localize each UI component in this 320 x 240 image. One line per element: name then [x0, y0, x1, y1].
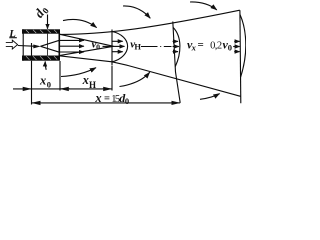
arrow right at transition — [102, 88, 112, 90]
core boundary lower converging — [59, 46, 113, 55]
svg-text:x: x — [191, 43, 197, 53]
profile arrow 1 — [112, 40, 122, 42]
axis dash-dot after vH — [141, 46, 172, 48]
underline of L — [9, 37, 16, 39]
label d0 — [31, 2, 51, 21]
fan line upper from arrow tip — [41, 40, 60, 46]
right arrow of x=15d0 — [171, 102, 180, 104]
svg-text:0,2: 0,2 — [210, 40, 222, 51]
jet upper boundary — [59, 10, 240, 34]
entrainment arrow top 3 — [190, 2, 217, 10]
pole extension line — [31, 43, 33, 105]
x=15d0 span — [41, 102, 171, 104]
entrainment arrow bottom 3 — [200, 94, 220, 100]
d0 top arrow — [47, 15, 49, 29]
nozzle left edge — [22, 29, 24, 60]
dimension line x0 / xH at y=89 — [13, 88, 32, 90]
entrainment arrow top 1 — [63, 19, 97, 27]
far velocity profile — [240, 15, 246, 78]
transition section line — [111, 30, 113, 66]
svg-text:0: 0 — [96, 42, 100, 51]
far section line — [239, 10, 242, 103]
nozzle exit edge — [58, 34, 60, 56]
velocity profile at x=15d0 — [173, 28, 180, 67]
profile arrow 3 — [112, 51, 122, 53]
far profile arrow 1 — [234, 40, 239, 42]
far profile arrow 2 — [233, 46, 239, 48]
profile2 arrow 2 — [173, 46, 179, 48]
axis arrowhead — [33, 45, 41, 49]
profile arrow 2 — [112, 45, 124, 47]
d0 bottom arrow — [45, 62, 46, 70]
profile2 arrow 1 — [173, 40, 178, 42]
jet lower boundary — [59, 56, 240, 97]
svg-text:=: = — [198, 39, 204, 51]
xH span line — [70, 88, 102, 90]
transition velocity profile curve — [112, 32, 128, 62]
block arrow inlet — [6, 40, 18, 49]
extension line at nozzle exit — [59, 61, 61, 91]
core velocity arrow top — [60, 39, 84, 41]
nozzle top wall — [22, 29, 60, 33]
svg-text:x: x — [39, 74, 46, 88]
extension line at transition — [111, 66, 113, 91]
svg-text:H: H — [134, 42, 141, 52]
svg-text:x: x — [82, 73, 89, 87]
core boundary upper converging — [59, 34, 113, 46]
entrainment arrow bottom 2 — [120, 72, 150, 86]
arrow left at exit — [60, 88, 70, 90]
core velocity arrow middle — [60, 45, 84, 47]
nozzle bottom wall — [22, 56, 60, 61]
svg-text:0: 0 — [125, 96, 129, 106]
entrainment arrow bottom 1 — [61, 68, 96, 77]
svg-text:L: L — [8, 28, 16, 40]
x0 span line — [32, 88, 71, 90]
entrainment arrow top 2 — [123, 6, 150, 18]
svg-text:0: 0 — [228, 42, 232, 52]
fan line lower from arrow tip — [41, 46, 60, 52]
d0 dimension line across nozzle — [47, 34, 49, 56]
axis dash before transition — [103, 45, 113, 47]
section line x=15d0 — [173, 22, 180, 103]
profile2 arrow 3 — [173, 51, 178, 53]
axis arrow into nozzle — [18, 45, 34, 48]
svg-text:H: H — [89, 80, 96, 90]
svg-text:=: = — [104, 93, 110, 104]
dimension line x=15d0 at y=103 — [32, 102, 41, 104]
svg-text:x: x — [94, 91, 101, 105]
core velocity arrow bottom — [60, 51, 84, 53]
far profile arrow 3 — [234, 51, 239, 53]
svg-text:0: 0 — [47, 79, 51, 89]
